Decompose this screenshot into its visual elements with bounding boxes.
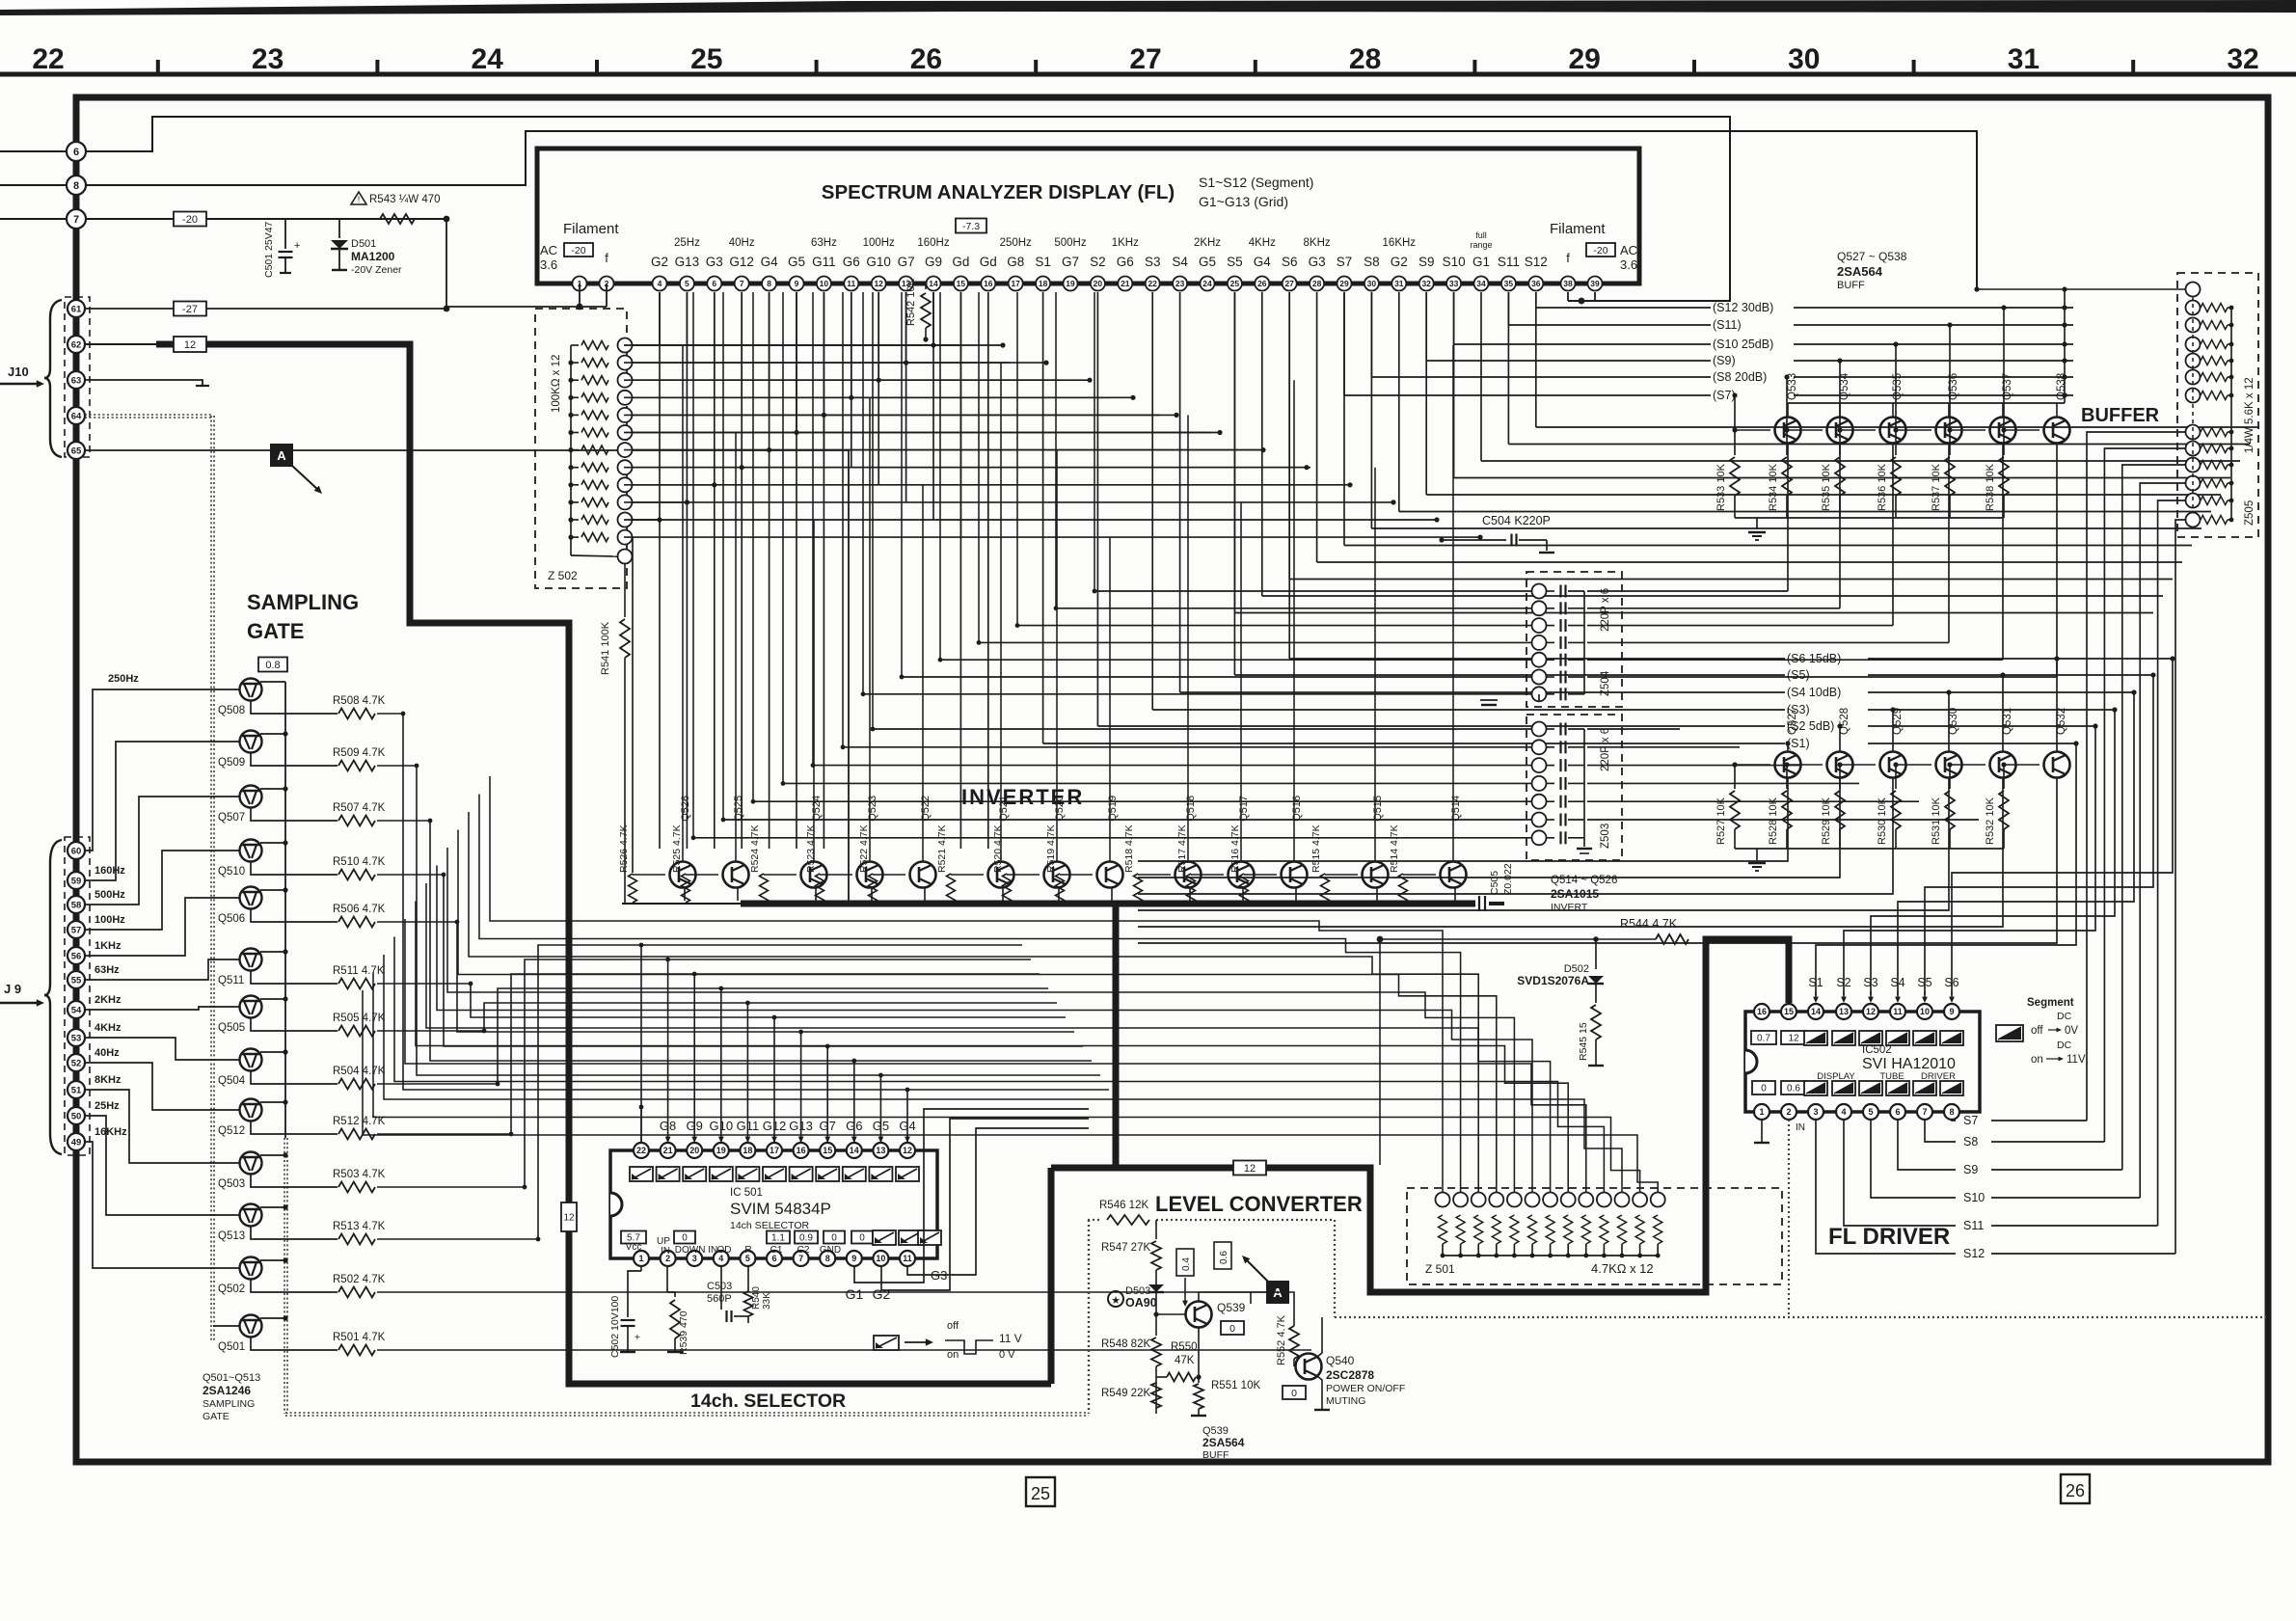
svg-text:12: 12 xyxy=(903,1146,912,1155)
svg-text:POWER ON/OFF: POWER ON/OFF xyxy=(1326,1383,1405,1394)
resistor R543 xyxy=(380,214,415,224)
svg-text:SPECTRUM ANALYZER DISPLAY (FL): SPECTRUM ANALYZER DISPLAY (FL) xyxy=(822,181,1175,203)
svg-text:0.4: 0.4 xyxy=(1181,1257,1192,1271)
transistor Q514 xyxy=(1441,862,1467,888)
svg-text:4.7KΩ x 12: 4.7KΩ x 12 xyxy=(1591,1261,1654,1276)
segment symbol legend xyxy=(874,1336,899,1350)
svg-text:5: 5 xyxy=(685,279,689,288)
svg-text:13: 13 xyxy=(876,1146,885,1155)
svg-text:R547 27K: R547 27K xyxy=(1101,1242,1150,1254)
svg-text:Q512: Q512 xyxy=(218,1125,245,1137)
svg-text:G6: G6 xyxy=(846,1119,862,1133)
buffer base resistor bus xyxy=(1735,517,2004,519)
svg-text:500Hz: 500Hz xyxy=(1054,237,1086,249)
svg-text:R519 4.7K: R519 4.7K xyxy=(1045,824,1057,873)
svg-text:24: 24 xyxy=(1202,279,1212,288)
svg-text:R521 4.7K: R521 4.7K xyxy=(936,824,948,873)
svg-text:33K: 33K xyxy=(762,1292,772,1310)
resistor R533 10K xyxy=(1734,430,1736,455)
transistor Q508 xyxy=(240,679,262,701)
transistor Q540 xyxy=(1296,1354,1322,1380)
svg-text:!: ! xyxy=(358,195,361,204)
svg-text:100KΩ x 12: 100KΩ x 12 xyxy=(551,355,562,413)
svg-text:Q505: Q505 xyxy=(218,1022,245,1034)
svg-text:Segment: Segment xyxy=(2027,997,2074,1009)
resistor R535 10K xyxy=(1839,430,1841,455)
svg-text:11 V: 11 V xyxy=(999,1332,1022,1345)
svg-text:1: 1 xyxy=(638,1254,643,1263)
svg-text:40Hz: 40Hz xyxy=(729,237,755,249)
svg-text:6: 6 xyxy=(712,279,716,288)
value 0.4 box xyxy=(1176,1249,1194,1276)
svg-text:range: range xyxy=(1470,240,1492,250)
svg-text:R518 4.7K: R518 4.7K xyxy=(1123,824,1135,873)
svg-text:10: 10 xyxy=(876,1254,885,1263)
svg-text:Q519: Q519 xyxy=(1107,796,1119,822)
svg-text:22: 22 xyxy=(636,1146,646,1155)
svg-text:DRIVER: DRIVER xyxy=(1921,1071,1956,1082)
svg-text:S4: S4 xyxy=(1890,976,1904,989)
resistor R521 4.7K xyxy=(947,874,956,903)
resistor R527 10K xyxy=(1734,765,1736,789)
resistor R514 4.7K xyxy=(1399,874,1408,903)
svg-text:31: 31 xyxy=(1394,279,1404,288)
resistor R507 4.7K xyxy=(251,808,338,822)
svg-text:J10: J10 xyxy=(8,365,29,379)
svg-text:OA90: OA90 xyxy=(1125,1296,1157,1310)
svg-text:21: 21 xyxy=(663,1146,673,1155)
svg-text:R545 15: R545 15 xyxy=(1578,1022,1589,1061)
svg-text:Q508: Q508 xyxy=(218,705,245,716)
svg-text:7: 7 xyxy=(73,214,79,226)
transistor Q534 xyxy=(1827,418,1853,444)
svg-text:TUBE: TUBE xyxy=(1879,1071,1904,1082)
svg-text:S5: S5 xyxy=(1227,255,1243,269)
Z502 row wires to display grid xyxy=(632,344,959,346)
svg-text:Q511: Q511 xyxy=(218,975,244,986)
transistor Q509 xyxy=(240,731,262,753)
svg-text:GATE: GATE xyxy=(247,619,304,643)
svg-text:Q520: Q520 xyxy=(1054,796,1066,822)
svg-text:0.8: 0.8 xyxy=(265,660,280,671)
IC502 boxes xyxy=(1751,1031,1776,1044)
transistor Q536 xyxy=(1936,418,1962,444)
resistor R530 10K xyxy=(1895,765,1897,789)
resistor R541 100K xyxy=(624,564,626,617)
svg-text:7: 7 xyxy=(1922,1107,1927,1117)
resistor R510 4.7K xyxy=(251,862,338,876)
svg-text:1KHz: 1KHz xyxy=(1112,237,1139,249)
svg-text:off: off xyxy=(947,1320,959,1332)
transistor Q513 xyxy=(240,1204,262,1227)
svg-text:33: 33 xyxy=(1449,279,1459,288)
ground Z503 xyxy=(1583,838,1585,847)
svg-text:63Hz: 63Hz xyxy=(95,964,120,976)
svg-text:2KHz: 2KHz xyxy=(95,994,122,1006)
resistor R520 4.7K xyxy=(1003,874,1012,903)
svg-text:R550: R550 xyxy=(1171,1341,1198,1353)
page number 26 xyxy=(2061,1474,2090,1503)
svg-text:G2: G2 xyxy=(873,1286,891,1302)
resistor R502 4.7K xyxy=(251,1280,338,1293)
svg-text:4: 4 xyxy=(658,279,662,288)
J9 bracket xyxy=(44,840,62,1154)
svg-text:53: 53 xyxy=(71,1033,82,1043)
transistor Q530 xyxy=(1936,752,1962,778)
svg-text:R517 4.7K: R517 4.7K xyxy=(1176,824,1188,873)
buffer emitter rail xyxy=(1788,402,2065,404)
svg-text:R538 10K: R538 10K xyxy=(1985,463,1996,511)
capacitor network Z503 220P x6 xyxy=(1526,715,1622,860)
svg-text:C504 K220P: C504 K220P xyxy=(1482,514,1551,527)
svg-text:27: 27 xyxy=(1284,279,1294,288)
svg-text:0: 0 xyxy=(1229,1323,1235,1335)
resistor R501 4.7K xyxy=(251,1337,338,1351)
svg-text:Q501: Q501 xyxy=(218,1341,245,1353)
svg-text:(S9): (S9) xyxy=(1713,354,1736,367)
svg-text:14ch SELECTOR: 14ch SELECTOR xyxy=(730,1220,810,1231)
svg-text:Q502: Q502 xyxy=(218,1283,245,1295)
transistor Q511 xyxy=(240,949,262,971)
svg-text:56: 56 xyxy=(71,951,82,961)
IC501 segment boxes top xyxy=(630,1167,653,1181)
svg-text:R505 4.7K: R505 4.7K xyxy=(333,1013,386,1024)
svg-text:Q506: Q506 xyxy=(218,913,245,925)
svg-text:(S8 20dB): (S8 20dB) xyxy=(1713,370,1767,384)
svg-text:19: 19 xyxy=(1066,279,1075,288)
svg-text:Q538: Q538 xyxy=(2056,373,2067,400)
svg-text:160Hz: 160Hz xyxy=(917,237,949,249)
connector pin 6 xyxy=(0,150,76,152)
resistor R515 4.7K xyxy=(1321,874,1330,903)
resistor R511 4.7K xyxy=(251,971,338,985)
capacitor network Z504 220P x6 xyxy=(1526,572,1622,707)
svg-text:34: 34 xyxy=(1476,279,1486,288)
svg-text:G3: G3 xyxy=(931,1268,947,1283)
svg-text:G5: G5 xyxy=(788,255,805,269)
inverter bus thick xyxy=(622,903,741,905)
svg-text:Filament: Filament xyxy=(563,221,619,237)
svg-text:0.7: 0.7 xyxy=(1757,1034,1770,1044)
transistor Q504 xyxy=(240,1049,262,1071)
svg-text:8KHz: 8KHz xyxy=(95,1074,122,1086)
svg-text:17: 17 xyxy=(1011,279,1020,288)
resistor R529 10K xyxy=(1839,765,1841,789)
svg-text:(S12 30dB): (S12 30dB) xyxy=(1713,301,1773,314)
svg-text:SVIM 54834P: SVIM 54834P xyxy=(730,1200,831,1218)
svg-text:S6: S6 xyxy=(1282,255,1298,269)
value 0 box Q540 xyxy=(1283,1386,1306,1399)
resistor R506 4.7K xyxy=(251,909,338,923)
svg-text:R514 4.7K: R514 4.7K xyxy=(1389,824,1400,873)
transistor Q516 xyxy=(1282,862,1308,888)
svg-text:Z0.022: Z0.022 xyxy=(1502,863,1514,895)
svg-text:0: 0 xyxy=(1291,1388,1297,1399)
wire pin65 xyxy=(85,450,849,904)
svg-text:G5: G5 xyxy=(873,1119,889,1133)
svg-text:IC502: IC502 xyxy=(1862,1044,1892,1056)
marker A top xyxy=(270,444,293,467)
value 0 box xyxy=(1221,1321,1244,1335)
svg-text:52: 52 xyxy=(71,1058,82,1068)
svg-text:Q504: Q504 xyxy=(218,1075,246,1087)
svg-text:R524 4.7K: R524 4.7K xyxy=(749,824,761,873)
svg-text:26: 26 xyxy=(910,43,942,75)
svg-text:R539 470: R539 470 xyxy=(678,1310,689,1355)
segment net labels S1-S6 xyxy=(1288,292,1290,659)
svg-text:8: 8 xyxy=(767,279,771,288)
svg-text:8KHz: 8KHz xyxy=(1304,237,1331,249)
svg-text:16KHz: 16KHz xyxy=(95,1126,127,1138)
svg-text:S10: S10 xyxy=(1963,1191,1985,1204)
svg-text:R530 10K: R530 10K xyxy=(1877,797,1888,845)
svg-text:SVD1S2076A: SVD1S2076A xyxy=(1517,974,1589,987)
svg-text:0: 0 xyxy=(831,1233,837,1244)
svg-text:R520 4.7K: R520 4.7K xyxy=(992,824,1004,873)
svg-text:Vcc: Vcc xyxy=(626,1242,642,1253)
svg-text:25Hz: 25Hz xyxy=(95,1100,120,1112)
svg-text:1KHz: 1KHz xyxy=(95,940,122,952)
svg-text:Q510: Q510 xyxy=(218,866,245,878)
resistor R526 4.7K xyxy=(629,874,637,903)
svg-text:BUFFER: BUFFER xyxy=(2081,405,2160,426)
svg-text:49: 49 xyxy=(71,1137,82,1148)
transistor Q527 xyxy=(1775,752,1801,778)
transistor Q524 xyxy=(801,862,827,888)
transistor Q531 xyxy=(1990,752,2016,778)
svg-text:23: 23 xyxy=(1175,279,1185,288)
svg-text:G6: G6 xyxy=(1117,255,1134,269)
resistor R518 4.7K xyxy=(1134,874,1143,903)
svg-text:Z503: Z503 xyxy=(1600,824,1611,849)
transistor Q526 xyxy=(670,862,696,888)
resistor R552 4.7K xyxy=(1251,1292,1294,1326)
svg-text:FL DRIVER: FL DRIVER xyxy=(1828,1224,1950,1250)
svg-text:G9: G9 xyxy=(925,255,942,269)
svg-text:27: 27 xyxy=(1129,43,1161,75)
svg-text:(S6 15dB): (S6 15dB) xyxy=(1787,652,1841,665)
svg-text:R523 4.7K: R523 4.7K xyxy=(805,824,817,873)
svg-text:R533 10K: R533 10K xyxy=(1715,463,1727,511)
Z502 left bus xyxy=(570,345,572,555)
resistor R548 82K xyxy=(1155,1314,1157,1336)
connector pin 8 xyxy=(0,184,76,186)
svg-text:0: 0 xyxy=(682,1233,688,1244)
svg-text:32: 32 xyxy=(2227,43,2258,75)
IC501 bottom pins xyxy=(634,1251,649,1266)
svg-text:6: 6 xyxy=(1895,1107,1900,1117)
resistor R534 10K xyxy=(1786,430,1788,455)
wire Q501 input stub xyxy=(213,1325,239,1327)
resistor R545 15 xyxy=(1595,984,1597,1003)
S1-S6 wires to FL driver xyxy=(1816,743,2076,995)
transistor Q515 xyxy=(1363,862,1389,888)
svg-text:Q526: Q526 xyxy=(680,796,691,822)
page number 25 xyxy=(1026,1477,1055,1506)
level converter shield box xyxy=(1088,1219,1099,1221)
svg-text:S1: S1 xyxy=(1808,976,1823,989)
svg-text:Q517: Q517 xyxy=(1238,796,1250,822)
sampling output staircase wires xyxy=(377,714,907,1142)
svg-text:47K: 47K xyxy=(1175,1355,1195,1366)
svg-text:A: A xyxy=(277,448,286,463)
svg-text:R513 4.7K: R513 4.7K xyxy=(333,1221,386,1232)
svg-text:J 9: J 9 xyxy=(4,982,21,996)
svg-text:R527 10K: R527 10K xyxy=(1715,797,1727,845)
svg-text:12: 12 xyxy=(1244,1163,1256,1175)
svg-text:23: 23 xyxy=(252,43,284,75)
wire pin6 to top rail xyxy=(85,117,1730,301)
svg-text:2KHz: 2KHz xyxy=(1194,237,1221,249)
resistor network Z502 100K x12 xyxy=(535,309,627,588)
svg-text:51: 51 xyxy=(71,1085,82,1095)
svg-text:8: 8 xyxy=(1949,1107,1954,1117)
svg-text:S1: S1 xyxy=(1035,255,1051,269)
svg-text:AC: AC xyxy=(540,243,557,257)
svg-text:26: 26 xyxy=(1257,279,1267,288)
svg-text:Gd: Gd xyxy=(980,255,997,269)
svg-text:G11: G11 xyxy=(812,255,836,269)
resistor R547 27K xyxy=(1155,1220,1157,1239)
svg-text:64: 64 xyxy=(71,411,82,421)
transistor Q520 xyxy=(1044,862,1070,888)
resistor R532 10K xyxy=(2003,765,2005,789)
resistor R525 4.7K xyxy=(682,874,690,903)
svg-text:+: + xyxy=(635,1333,640,1343)
supply rail -20 to Z505 xyxy=(1977,288,2193,290)
selector feed grid wires xyxy=(490,776,1443,1192)
svg-text:54: 54 xyxy=(71,1005,82,1015)
svg-text:500Hz: 500Hz xyxy=(95,889,125,901)
svg-text:17: 17 xyxy=(770,1146,779,1155)
svg-text:SAMPLING: SAMPLING xyxy=(203,1398,255,1410)
wire -20 to filament xyxy=(446,219,607,307)
svg-text:C2: C2 xyxy=(797,1245,810,1256)
svg-text:R526 4.7K: R526 4.7K xyxy=(618,824,630,873)
level converter top bus xyxy=(1051,939,1789,1292)
IC502 pin2 shield in xyxy=(1788,1120,1790,1317)
transistor Q538 xyxy=(2044,418,2070,444)
svg-text:R501 4.7K: R501 4.7K xyxy=(333,1332,386,1343)
svg-text:220P x 6: 220P x 6 xyxy=(1600,728,1611,771)
resistor R504 4.7K xyxy=(251,1071,338,1085)
resistor R522 4.7K xyxy=(869,874,878,903)
svg-text:on: on xyxy=(2031,1054,2043,1066)
transistor Q532 xyxy=(2044,752,2070,778)
svg-text:29: 29 xyxy=(1569,43,1601,75)
svg-text:G1~G13 (Grid): G1~G13 (Grid) xyxy=(1199,194,1288,209)
svg-text:11: 11 xyxy=(903,1254,912,1263)
transistor Q537 xyxy=(1990,418,2016,444)
svg-text:25: 25 xyxy=(1230,279,1240,288)
svg-text:G4: G4 xyxy=(761,255,779,269)
transistor Q501 xyxy=(240,1315,262,1337)
transistor Q533 xyxy=(1775,418,1801,444)
resistor R523 4.7K xyxy=(816,874,824,903)
svg-text:14: 14 xyxy=(1811,1007,1821,1016)
svg-text:f: f xyxy=(605,251,608,265)
resistor network Z505 5.6K x12 xyxy=(2177,273,2258,537)
resistor R540 33K xyxy=(747,1266,749,1292)
svg-text:36: 36 xyxy=(1531,279,1541,288)
resistor R549 22K xyxy=(1151,1383,1161,1408)
segment net labels S7-S12 xyxy=(1535,292,1537,308)
svg-text:R508 4.7K: R508 4.7K xyxy=(333,695,386,707)
svg-text:25Hz: 25Hz xyxy=(674,237,700,249)
svg-text:59: 59 xyxy=(71,876,82,886)
resistor R537 10K xyxy=(1949,430,1951,455)
transistor Q503 xyxy=(240,1152,262,1175)
svg-text:INVERTER: INVERTER xyxy=(961,785,1084,809)
svg-text:R543 ¼W 470: R543 ¼W 470 xyxy=(369,194,441,205)
svg-text:G1: G1 xyxy=(846,1286,864,1302)
svg-text:29: 29 xyxy=(1339,279,1349,288)
svg-text:(S11): (S11) xyxy=(1713,318,1742,332)
connector J10 pins 61-65 xyxy=(65,297,90,457)
svg-text:0: 0 xyxy=(859,1233,865,1244)
svg-text:AC: AC xyxy=(1620,243,1637,257)
svg-text:G3: G3 xyxy=(1309,255,1326,269)
svg-text:R531 10K: R531 10K xyxy=(1931,797,1942,845)
sampling gate common bus xyxy=(284,682,286,1138)
resistor R505 4.7K xyxy=(251,1018,338,1032)
svg-text:GATE: GATE xyxy=(203,1411,230,1422)
svg-text:11V: 11V xyxy=(2066,1054,2086,1066)
svg-text:DC: DC xyxy=(2057,1011,2072,1022)
svg-text:11: 11 xyxy=(847,279,855,288)
svg-text:G1: G1 xyxy=(1472,255,1490,269)
svg-text:10: 10 xyxy=(1920,1007,1930,1016)
svg-text:S3: S3 xyxy=(1145,255,1161,269)
svg-text:16: 16 xyxy=(984,279,993,288)
svg-text:Q539: Q539 xyxy=(1217,1301,1246,1314)
svg-text:S6: S6 xyxy=(1944,976,1958,989)
svg-text:D501: D501 xyxy=(351,238,376,250)
svg-text:18: 18 xyxy=(743,1146,752,1155)
svg-text:14: 14 xyxy=(929,279,938,288)
svg-text:9: 9 xyxy=(1949,1007,1954,1016)
transistor Q505 xyxy=(240,996,262,1018)
transistor Q518 xyxy=(1175,862,1202,888)
svg-text:G12: G12 xyxy=(763,1119,787,1133)
resistor R503 4.7K xyxy=(251,1175,338,1188)
svg-text:S7: S7 xyxy=(1337,255,1353,269)
svg-text:(S5): (S5) xyxy=(1787,668,1810,682)
Z504 feed wires xyxy=(1094,590,1532,592)
svg-text:S4: S4 xyxy=(1172,255,1188,269)
transistor Q523 xyxy=(857,862,883,888)
svg-text:-20V Zener: -20V Zener xyxy=(351,264,402,276)
S7-S12 right riser wires xyxy=(2087,432,2185,1121)
svg-text:30: 30 xyxy=(1367,279,1377,288)
svg-text:Q514 ~ Q526: Q514 ~ Q526 xyxy=(1551,875,1617,886)
svg-text:SAMPLING: SAMPLING xyxy=(247,590,359,614)
svg-text:IC 501: IC 501 xyxy=(730,1187,763,1199)
svg-text:G7: G7 xyxy=(1062,255,1079,269)
svg-text:OD: OD xyxy=(717,1245,732,1256)
transistor Q502 xyxy=(240,1257,262,1280)
svg-text:MUTING: MUTING xyxy=(1326,1395,1365,1407)
svg-text:IN: IN xyxy=(661,1246,670,1256)
resistor R519 4.7K xyxy=(1056,874,1065,903)
svg-text:21: 21 xyxy=(1121,279,1130,288)
svg-text:1.1: 1.1 xyxy=(771,1233,785,1244)
svg-text:250Hz: 250Hz xyxy=(1000,237,1032,249)
svg-text:24: 24 xyxy=(472,43,504,75)
svg-text:57: 57 xyxy=(71,925,82,935)
svg-text:Gd: Gd xyxy=(952,255,969,269)
svg-text:22: 22 xyxy=(32,43,64,75)
